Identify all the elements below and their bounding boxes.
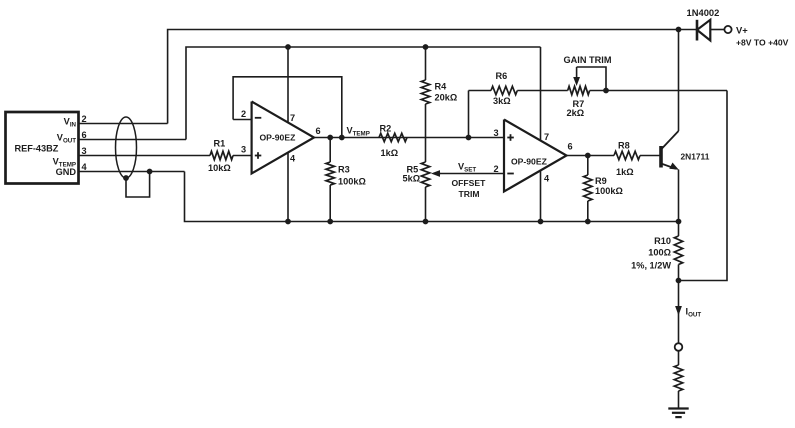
svg-text:2N1711: 2N1711 (681, 152, 710, 162)
svg-text:100Ω: 100Ω (648, 248, 671, 258)
R3 label (338, 165, 350, 175)
wire node to R6 row (468, 91, 470, 138)
svg-text:R3: R3 (338, 165, 350, 175)
svg-text:4: 4 (544, 174, 550, 184)
U2 label OP-90EZ (511, 157, 547, 167)
wire V_OUT to op-amp supply rail (wire2) (186, 47, 541, 140)
load resistor (674, 365, 682, 391)
pin number 6 (U2) (568, 142, 573, 152)
svg-text:OP-90EZ: OP-90EZ (260, 133, 296, 143)
R10 value 100 (648, 248, 671, 258)
svg-text:100kΩ: 100kΩ (338, 177, 366, 187)
D1 label 1N4002 (687, 7, 720, 18)
wire R5 bottom to rail (425, 187, 427, 222)
svg-text:6: 6 (82, 130, 87, 140)
U2 plus sign (507, 134, 514, 141)
R8 label (618, 141, 630, 151)
wire R9 top (587, 156, 589, 176)
node R3 rail junction (327, 219, 333, 225)
REF-43BZ label (15, 144, 59, 154)
I_OUT arrow (675, 306, 682, 316)
wire R6 to R7 (517, 90, 567, 92)
R4 value 20k (435, 93, 458, 103)
svg-text:3: 3 (82, 146, 87, 156)
R5 label (407, 165, 419, 175)
R5 value 5k (403, 174, 421, 184)
pin number 7 (U1) (290, 113, 295, 123)
diode D1 1N4002 (697, 20, 710, 41)
resistor R3 (326, 162, 334, 185)
R9 value 100k (595, 186, 623, 196)
svg-text:1%, 1/2W: 1%, 1/2W (631, 261, 671, 271)
node R2/U2 pin3 junction (466, 135, 472, 141)
wire pin6 V_OUT row (79, 139, 187, 141)
wire pin3 V_TEMP row (79, 155, 211, 157)
node V_TEMP label (347, 126, 370, 138)
terminal V+ circle (724, 26, 731, 33)
wire R7 row to right side (590, 90, 727, 92)
svg-text:7: 7 (544, 132, 549, 142)
wire I_OUT down (678, 281, 680, 344)
REF-43BZ pin label V_OUT (57, 133, 76, 145)
U1 plus sign (255, 152, 261, 159)
R6 label (496, 71, 508, 81)
wire R3 top (329, 138, 331, 163)
svg-text:R2: R2 (380, 124, 392, 134)
svg-text:IOUT: IOUT (686, 307, 702, 319)
pin number 2 (82, 114, 87, 124)
svg-text:R8: R8 (618, 141, 630, 151)
R3 value 100k (338, 177, 366, 187)
GAIN TRIM wiper (573, 67, 580, 86)
wire R4 top (425, 47, 427, 80)
wire to diode (679, 29, 698, 31)
U1 label OP-90EZ (260, 133, 296, 143)
wire load to ground (678, 391, 680, 409)
wire U2 pin7 supply (540, 47, 542, 141)
REF-43BZ pin label GND (56, 167, 77, 177)
pin number 2 (U1) (241, 109, 246, 119)
op-amp U1 OP-90EZ triangle (252, 102, 314, 174)
svg-text:R9: R9 (595, 176, 607, 186)
node U2 pin4 rail junction (538, 219, 544, 225)
R1 label (214, 139, 226, 149)
wire U1 feedback loop (233, 77, 342, 138)
pin number 4 (U2) (544, 174, 550, 184)
R2 label (380, 124, 392, 134)
wire R1 to U1 pin3 (233, 155, 252, 157)
wire pin4 GND row (79, 171, 185, 173)
wire R4 to R5 (425, 104, 427, 162)
svg-text:V+: V+ (736, 25, 748, 36)
wire R3 bottom (329, 185, 331, 222)
svg-text:3: 3 (494, 128, 499, 138)
U2 minus sign (507, 173, 514, 175)
R5 wiper arrow (431, 170, 441, 177)
svg-text:10kΩ: 10kΩ (208, 163, 231, 173)
svg-text:100kΩ: 100kΩ (595, 186, 623, 196)
svg-text:6: 6 (316, 126, 321, 136)
svg-text:VSET: VSET (458, 162, 476, 174)
pin number 7 (U2) (544, 132, 549, 142)
svg-text:1kΩ: 1kΩ (381, 148, 399, 158)
node wire1/diode junction (676, 27, 682, 33)
U1 minus sign (255, 117, 261, 119)
svg-text:REF-43BZ: REF-43BZ (15, 144, 59, 154)
svg-text:OFFSET: OFFSET (452, 178, 487, 188)
svg-text:3: 3 (241, 145, 246, 155)
svg-text:2: 2 (82, 114, 87, 124)
pin number 6 (U1) (316, 126, 321, 136)
svg-text:VOUT: VOUT (57, 133, 76, 145)
node U1 output / feedback (339, 135, 345, 141)
svg-text:R1: R1 (214, 139, 226, 149)
node emitter/rail/R10 junction (676, 219, 682, 225)
wire U1 pin4 to rail (287, 153, 289, 222)
resistor R9 (584, 175, 592, 201)
svg-text:1kΩ: 1kΩ (616, 167, 634, 177)
wire emitter down (678, 170, 680, 222)
R10 tolerance label (631, 261, 671, 271)
potentiometer R5 (421, 162, 429, 187)
IC REF-43BZ box (6, 112, 79, 184)
R4 label (435, 82, 448, 92)
node R7 wiper junction (603, 88, 609, 94)
node R5 rail junction (423, 219, 429, 225)
svg-text:OP-90EZ: OP-90EZ (511, 157, 547, 167)
transistor Q1 2N1711 (661, 131, 679, 170)
ground (668, 409, 688, 418)
wire U2 pin4 to rail (540, 171, 542, 222)
OFFSET TRIM label (452, 178, 487, 199)
supply range label (736, 38, 789, 48)
R9 label (595, 176, 607, 186)
R10 label (654, 236, 671, 246)
terminal I_OUT circle (675, 343, 683, 351)
svg-text:6: 6 (568, 142, 573, 152)
Q1 label 2N1711 (681, 152, 710, 162)
wire U1 output row (314, 137, 504, 139)
node junction wire2 / R4 (423, 44, 429, 50)
svg-text:4: 4 (290, 154, 296, 164)
resistor R8 (614, 151, 640, 159)
wire shield drain to GND (126, 172, 150, 198)
pin number 3 (82, 146, 87, 156)
pin number 4 (U1) (290, 154, 296, 164)
wire R9 bottom (587, 201, 589, 222)
R6 value 3k (493, 96, 511, 106)
svg-text:5kΩ: 5kΩ (403, 174, 421, 184)
wire V_IN to top supply rail (wire1) (168, 30, 679, 124)
V+ label (736, 25, 748, 36)
svg-text:7: 7 (290, 113, 295, 123)
node shield bottom (123, 175, 129, 181)
wire pin2 V_IN row (79, 123, 168, 125)
pin number 6 (82, 130, 87, 140)
node U1 pin4 rail junction (285, 219, 291, 225)
wire GAIN TRIM bracket (577, 67, 606, 91)
node U1 output / R3 (327, 135, 333, 141)
wire U1 pin7 supply (287, 47, 289, 123)
pin number 3 (U2) (494, 128, 499, 138)
svg-text:VIN: VIN (64, 117, 77, 129)
node V_SET label (458, 162, 476, 174)
op-amp U2 OP-90EZ triangle (504, 120, 567, 192)
svg-text:+8V TO +40V: +8V TO +40V (736, 38, 789, 48)
potentiometer R7 (568, 86, 590, 94)
wire GND to common rail (185, 172, 679, 222)
wire U2 output row (567, 155, 615, 157)
resistor R2 (379, 133, 407, 141)
wire rail to R10 (678, 222, 680, 237)
wire U1 pin2 input (233, 119, 252, 121)
resistor R6 (491, 86, 517, 94)
pin number 4 (82, 162, 88, 172)
svg-text:20kΩ: 20kΩ (435, 93, 458, 103)
wire diode to V+ terminal (710, 29, 724, 31)
I_OUT label (686, 307, 702, 319)
node U2 output / R9 (585, 153, 591, 159)
REF-43BZ pin label V_IN (64, 117, 77, 129)
R7 label (573, 99, 585, 109)
cable shield ellipse (116, 117, 137, 178)
node shield/GND junction (147, 169, 153, 175)
wire R6 row left (469, 90, 492, 92)
node R10 bottom junction (676, 278, 682, 284)
svg-text:R6: R6 (496, 71, 508, 81)
wire R8 to base (640, 155, 661, 157)
wire R10 to I_OUT node (678, 265, 680, 281)
svg-text:GAIN TRIM: GAIN TRIM (564, 55, 612, 65)
svg-text:4: 4 (82, 162, 88, 172)
svg-text:VTEMP: VTEMP (347, 126, 370, 138)
R8 value 1k (616, 167, 634, 177)
R7 value 2k (567, 108, 585, 118)
R1 value 10k (208, 163, 231, 173)
svg-text:2: 2 (494, 164, 499, 174)
svg-text:GND: GND (56, 167, 77, 177)
wire terminal to load (678, 351, 680, 365)
wire feedback sense right side (679, 91, 728, 281)
svg-text:TRIM: TRIM (459, 189, 480, 199)
GAIN TRIM label (564, 55, 612, 65)
resistor R4 (421, 80, 429, 104)
node R9 rail junction (585, 219, 591, 225)
svg-text:1N4002: 1N4002 (687, 7, 720, 18)
R2 value 1k (381, 148, 399, 158)
REF-43BZ pin label V_TEMP (53, 157, 76, 169)
svg-text:R10: R10 (654, 236, 671, 246)
resistor R10 (674, 236, 682, 264)
pin number 2 (U2) (494, 164, 499, 174)
svg-text:R4: R4 (435, 82, 448, 92)
node junction wire2 / U1 pin7 (285, 44, 291, 50)
wire collector to supply (678, 30, 680, 132)
pin number 3 (U1) (241, 145, 246, 155)
svg-text:2: 2 (241, 109, 246, 119)
svg-text:2kΩ: 2kΩ (567, 108, 585, 118)
resistor R1 (210, 151, 233, 159)
svg-text:3kΩ: 3kΩ (493, 96, 511, 106)
wire R5 wiper to U2 pin2 (441, 173, 504, 175)
